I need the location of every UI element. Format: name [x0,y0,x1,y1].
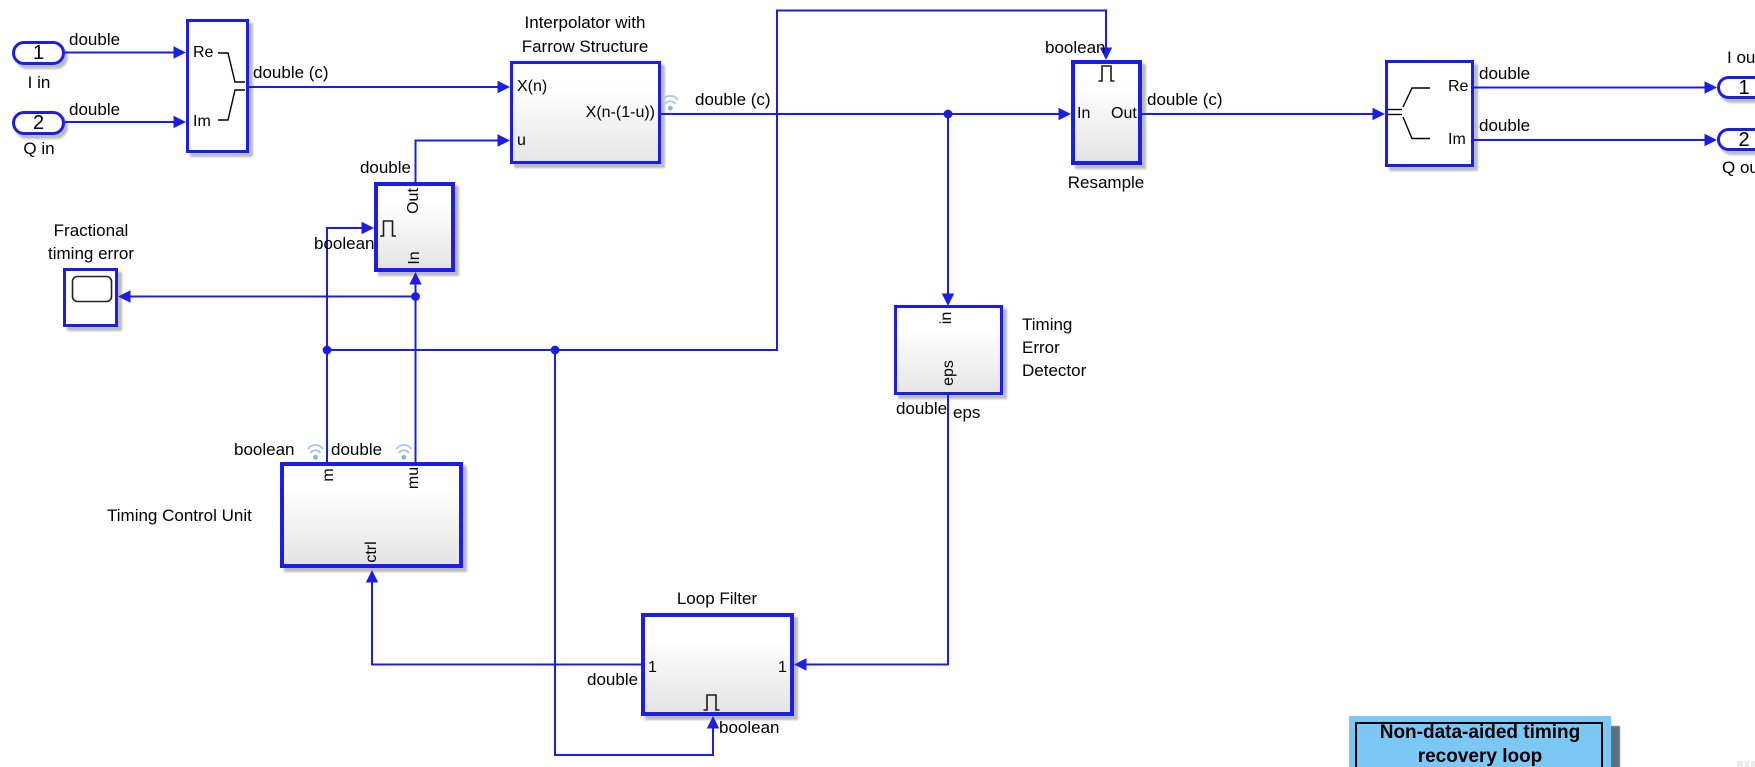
icon pulse Resample [1099,66,1115,81]
inport 2 (Q in) [12,111,65,135]
arrow into C2R [1373,108,1386,120]
wire C2R Im to outport 2 [1474,139,1705,141]
label boolean (RT trigger) [314,234,375,253]
icon R2C merge glyph [218,53,245,120]
wire TCU m up to rate transition trigger [327,228,362,462]
wire I in to Re [65,52,174,54]
label double (C2R Im) [1479,116,1530,135]
scope title [16,219,166,265]
wire TED eps to Loop Filter [806,395,948,665]
Resample In label [1077,105,1090,122]
interpolator title [485,11,685,59]
label double (TCU mu) [331,440,382,459]
label boolean (TCU m) [234,440,295,459]
icon log badge TCU mu [396,445,411,460]
wire boolean branch down to Loop Filter trigger [555,350,713,755]
block Real-Imag to Complex [186,19,249,153]
annotation Non-data-aided timing recovery loop [1349,716,1611,767]
wire Loop Filter out to TCU ctrl [372,582,641,665]
m rotated label [321,468,337,481]
icon pulse loop filter [704,695,720,710]
Re port label [193,44,213,61]
wire branch down to TED in [947,114,949,294]
in rotated label [939,312,955,324]
arrow into u [498,134,511,146]
scope block Fractional timing error [63,268,118,327]
X(n-(1-u)) port label [555,104,655,121]
block Resample [1071,60,1142,165]
block Complex to Real-Imag [1385,60,1474,167]
arrow into RT In [409,272,421,285]
label double (LF out) [587,670,638,689]
icon log badge TCU m [308,445,323,460]
Resample Out label [1111,105,1137,122]
label double (Q in) [69,100,120,119]
label double (I in) [69,30,120,49]
In rotated label [407,251,423,264]
icon log badge interpolator out [663,96,678,111]
arrow into Resample In [1059,108,1072,120]
label double (eps wire) [896,399,947,418]
arrow into TED in [942,294,954,307]
ctrl rotated label [364,541,380,562]
Im port label [193,113,211,130]
block Rate Transition (Out/In, rotated) [374,182,455,272]
arrow into Resample trigger [1100,48,1112,61]
wire Q in to Im [65,121,174,123]
mu rotated label [406,467,422,489]
icon pulse rate transition [380,221,396,236]
wire mu branch to scope [130,296,416,298]
Re out label [1448,78,1468,95]
outport 2 (Q out) [1717,128,1755,151]
junction node mu / scope branch [411,292,420,301]
X(n) port label [517,78,547,95]
Im out label [1448,131,1466,148]
label boolean (LF trigger) [719,718,780,737]
Out rotated label [406,188,422,214]
label double (c) after Resample [1147,90,1223,109]
TCU title [107,506,252,525]
arrow into Re [174,46,187,58]
wire boolean net horizontal and up-over to Resample trigger [327,11,1106,351]
arrow into RT trigger [362,222,375,234]
junction node boolean to Loop Filter [551,346,560,355]
LF inport num left [648,659,657,676]
label double (c) after interpolator [695,90,771,109]
label double (u wire) [341,158,411,177]
wire interpolator out to Resample In [661,113,1059,115]
wire TCU mu up to RT In [415,284,417,462]
eps rotated label [941,360,957,386]
inport 1 (I in) [12,41,65,65]
label eps (eps wire) [953,403,980,422]
arrow into scope [118,290,131,302]
inport 1 label [9,73,69,92]
TED title [1022,313,1086,382]
junction node m / boolean net [323,346,332,355]
icon scope screen [73,277,112,302]
arrow into outport 1 [1705,81,1718,93]
LF title [642,589,792,608]
arrow into outport 2 [1705,134,1718,146]
icon C2R split glyph [1388,88,1430,139]
block Interpolator with Farrow Structure [510,61,661,164]
block Timing Control Unit [280,462,463,568]
junction node at interp-out / TED branch [944,110,953,119]
inport 2 label [9,139,69,158]
arrow into Loop Filter right [794,658,807,670]
arrow into X(n) [498,81,511,93]
arrow into LF trigger [707,716,719,729]
arrow into TCU ctrl [366,570,378,583]
wire R2C out to X(n) [249,86,498,88]
faint corner marks [1737,761,1743,767]
block Timing Error Detector [894,305,1003,395]
block Loop Filter [641,613,794,716]
wire RT Out up to interpolator u [416,141,499,183]
wire C2R Re to outport 1 [1474,87,1705,89]
Resample title [1046,173,1166,192]
arrow into Im [174,116,187,128]
wire Resample Out to C2R [1142,113,1373,115]
label double (c) after R2C [253,63,329,82]
outport 2 label [1722,158,1755,177]
label boolean (resample trigger) [1045,38,1106,57]
label double (C2R Re) [1479,64,1530,83]
u port label [517,132,526,149]
outport 1 label [1727,48,1755,67]
LF inport num right [778,659,787,676]
outport 1 (I out) [1717,76,1755,99]
